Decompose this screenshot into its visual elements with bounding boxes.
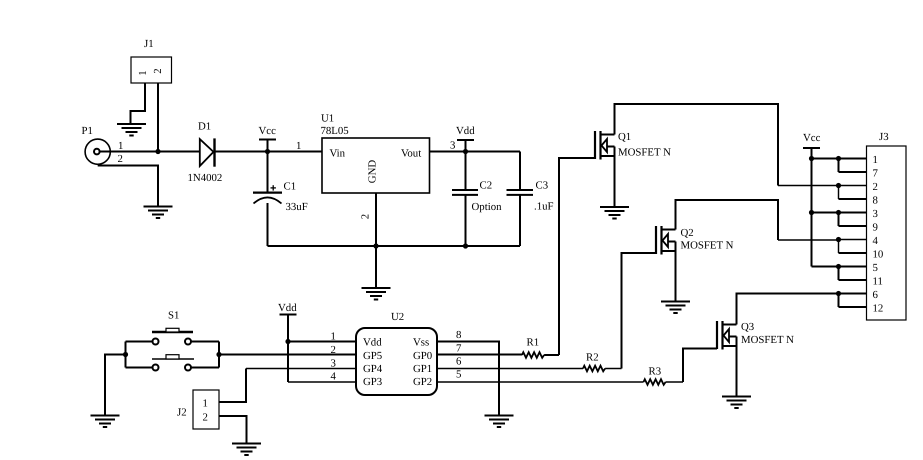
- node junction Vcc pair3: [809, 210, 814, 215]
- svg-text:Q1: Q1: [618, 131, 631, 143]
- svg-text:9: 9: [873, 222, 878, 234]
- wire R3 to Q3 gate: [666, 381, 683, 383]
- power Vcc (left): [259, 125, 277, 152]
- wire Q1 gate: [559, 158, 595, 355]
- node junction Vcc pair1: [809, 156, 814, 161]
- svg-text:11: 11: [873, 276, 883, 288]
- wire Q2 drain to J3 pins 4/10: [676, 200, 779, 240]
- svg-text:12: 12: [873, 303, 884, 315]
- connector J3: [867, 131, 907, 320]
- ground (Q1): [600, 207, 629, 219]
- ground (Q2): [661, 302, 690, 314]
- svg-text:C2: C2: [480, 180, 493, 192]
- capacitor C1 33uF: [253, 181, 308, 214]
- svg-text:MOSFET N: MOSFET N: [681, 240, 734, 252]
- wire S1 left side: [126, 342, 153, 368]
- wire S1 to U2 GP5: [219, 354, 356, 356]
- svg-text:R2: R2: [586, 352, 599, 364]
- wire J3 pair 1/7 bracket: [839, 159, 867, 173]
- svg-text:4: 4: [331, 370, 337, 382]
- node junction Vdd/C2: [463, 149, 468, 154]
- node junction rail/C2: [463, 243, 468, 248]
- transistor Q2 MOSFET N: [656, 226, 734, 255]
- wire U2 pin3 GP4 to J2: [246, 368, 356, 370]
- svg-text:D1: D1: [198, 121, 211, 133]
- wire C1 to ground rail: [267, 203, 269, 246]
- svg-text:Vcc: Vcc: [803, 132, 821, 144]
- svg-text:10: 10: [873, 249, 884, 261]
- ground rail under U1: [268, 245, 521, 247]
- wire Q3 source to ground: [736, 337, 738, 397]
- ground (J2): [232, 444, 261, 456]
- svg-text:7: 7: [873, 168, 879, 180]
- switch S1: [152, 310, 194, 371]
- svg-text:.1uF: .1uF: [534, 201, 554, 213]
- ground (U1): [362, 288, 391, 300]
- svg-text:5: 5: [873, 262, 878, 274]
- wire junction to C1: [267, 152, 269, 192]
- svg-text:1: 1: [203, 398, 208, 410]
- wire U2 pin4 GP3: [288, 381, 356, 383]
- wire Q1 source to ground: [614, 147, 616, 207]
- node junction pair 2/8: [836, 183, 841, 188]
- capacitor C2 Option: [452, 152, 502, 247]
- wire Q2 gate: [622, 253, 657, 369]
- svg-text:Vcc: Vcc: [259, 125, 277, 137]
- svg-text:GP5: GP5: [363, 350, 382, 362]
- wire U2 pin5 GP2 to R3: [437, 381, 644, 383]
- svg-text:P1: P1: [82, 125, 93, 137]
- node junction Vdd/pin1: [285, 339, 290, 344]
- wire Q3 gate: [683, 349, 717, 383]
- svg-text:C1: C1: [284, 181, 297, 193]
- wire J3 pair 6/12 bracket: [839, 294, 867, 308]
- wire P1 pin2 to ground: [98, 166, 158, 207]
- svg-text:6: 6: [873, 289, 879, 301]
- node junction rail/GND: [373, 243, 378, 248]
- wire Vcc to pair 1/7: [812, 158, 839, 160]
- svg-text:3: 3: [873, 208, 878, 220]
- svg-text:J3: J3: [879, 131, 889, 143]
- svg-text:Vdd: Vdd: [363, 337, 382, 349]
- wire S1 to ground: [105, 355, 126, 416]
- svg-text:Vdd: Vdd: [278, 302, 297, 314]
- wire R1 to Q1 gate: [544, 354, 559, 356]
- ground (Q3): [722, 397, 751, 409]
- svg-text:1: 1: [331, 331, 336, 343]
- capacitor C3 .1uF: [507, 152, 554, 247]
- svg-text:2: 2: [360, 214, 372, 219]
- svg-text:GP2: GP2: [413, 376, 432, 388]
- svg-text:2: 2: [152, 68, 164, 73]
- ground (U2 Vss): [485, 416, 514, 428]
- svg-text:R1: R1: [527, 337, 540, 349]
- power Vdd (U2): [278, 302, 297, 382]
- svg-text:7: 7: [456, 342, 462, 354]
- transistor Q3 MOSFET N: [717, 321, 794, 350]
- svg-text:Vss: Vss: [413, 337, 429, 349]
- svg-text:6: 6: [456, 356, 462, 368]
- svg-text:U1: U1: [321, 113, 334, 125]
- power Vdd (U1 output): [456, 125, 475, 152]
- svg-text:MOSFET N: MOSFET N: [741, 334, 794, 346]
- wire J1 pin1 to ground: [131, 83, 146, 124]
- svg-text:Vdd: Vdd: [456, 125, 475, 137]
- resistor R1: [522, 337, 544, 358]
- transistor Q1 MOSFET N: [595, 131, 671, 160]
- wire S1 right side: [191, 342, 219, 368]
- wire U2 pin6 GP1 to R2: [437, 368, 583, 370]
- resistor R2: [583, 352, 605, 372]
- svg-text:J1: J1: [144, 38, 154, 50]
- svg-text:1: 1: [296, 140, 301, 152]
- wire Vcc to pair 3/9: [812, 212, 839, 214]
- svg-text:8: 8: [873, 195, 878, 207]
- ground (S1): [91, 416, 120, 428]
- node junction pair 1/7: [836, 156, 841, 161]
- wire U1 GND pin to rail: [375, 193, 377, 246]
- svg-text:GP0: GP0: [413, 350, 432, 362]
- svg-text:1: 1: [137, 70, 149, 75]
- connector J1: [131, 38, 172, 83]
- svg-text:1: 1: [118, 140, 123, 152]
- svg-text:2: 2: [203, 412, 208, 424]
- svg-text:1N4002: 1N4002: [188, 172, 223, 184]
- node junction pair 5/11: [836, 264, 841, 269]
- svg-text:GP3: GP3: [363, 376, 382, 388]
- wire U2 pin8 Vss to ground: [437, 342, 499, 416]
- wire J3 pair 5/11 bracket: [839, 267, 867, 281]
- node junction P1/J1/D1: [155, 149, 160, 154]
- svg-text:J2: J2: [177, 407, 187, 419]
- wire J1 pin2 down: [157, 83, 159, 152]
- connector P1: [82, 125, 124, 165]
- node junction pair 4/10: [836, 237, 841, 242]
- node junction pair 6/12: [836, 291, 841, 296]
- wire Vcc to pair 5/11: [812, 266, 839, 268]
- svg-text:C3: C3: [536, 180, 549, 192]
- wire U1 Vout to C3: [430, 151, 521, 153]
- wire J3 pair 4/10 bracket: [839, 240, 867, 254]
- svg-text:33uF: 33uF: [286, 201, 308, 213]
- svg-text:U2: U2: [391, 311, 404, 323]
- connector J2: [177, 390, 219, 429]
- node junction Vcc/C1: [265, 149, 270, 154]
- svg-text:5: 5: [456, 369, 461, 381]
- microcontroller U2: [331, 311, 463, 395]
- svg-text:Option: Option: [472, 201, 503, 213]
- wire J2 pin2 to ground: [219, 416, 247, 443]
- svg-text:8: 8: [456, 329, 461, 341]
- ground (J1): [117, 124, 146, 136]
- wire P1 pin1 to D1: [100, 151, 200, 153]
- svg-text:S1: S1: [168, 310, 179, 322]
- wire J3 pair 3/9 bracket: [839, 213, 867, 227]
- svg-text:2: 2: [331, 344, 336, 356]
- regulator U1 78L05: [296, 113, 455, 220]
- svg-text:Q3: Q3: [741, 321, 754, 333]
- svg-text:1: 1: [873, 154, 878, 166]
- ground (P1 pin2): [144, 207, 173, 219]
- resistor R3: [644, 366, 666, 385]
- node junction S1 right: [216, 352, 221, 357]
- node junction S1 left: [123, 352, 128, 357]
- wire U2 pin7 GP0 to R1: [437, 354, 522, 356]
- svg-text:R3: R3: [649, 366, 662, 378]
- svg-text:GP1: GP1: [413, 363, 432, 375]
- wire J3 pair 2/8 bracket: [839, 186, 867, 200]
- wire Q2 source to ground: [675, 242, 677, 302]
- svg-text:4: 4: [873, 235, 879, 247]
- svg-text:3: 3: [331, 357, 336, 369]
- wire rail to ground symbol: [375, 246, 377, 288]
- svg-text:78L05: 78L05: [321, 125, 349, 137]
- wire Vdd to U2 pin1: [288, 341, 356, 343]
- svg-text:GND: GND: [367, 160, 379, 184]
- wire Q1 drain to J3 pins 2/8: [615, 104, 779, 186]
- svg-text:Vout: Vout: [401, 148, 421, 160]
- svg-text:Vin: Vin: [330, 148, 346, 160]
- svg-text:2: 2: [118, 153, 123, 165]
- svg-text:Q2: Q2: [681, 227, 694, 239]
- wire Q3 drain to J3 pins 6/12: [737, 294, 839, 325]
- wire R2 to Q2 gate: [605, 368, 621, 370]
- svg-text:MOSFET N: MOSFET N: [618, 147, 671, 159]
- wire D1 cathode to U1 Vin: [216, 151, 323, 153]
- svg-text:2: 2: [873, 181, 878, 193]
- diode D1 1N4002: [188, 121, 223, 185]
- svg-text:3: 3: [450, 140, 455, 152]
- node junction pair 3/9: [836, 210, 841, 215]
- power Vcc (J3): [803, 132, 821, 267]
- svg-text:GP4: GP4: [363, 363, 383, 375]
